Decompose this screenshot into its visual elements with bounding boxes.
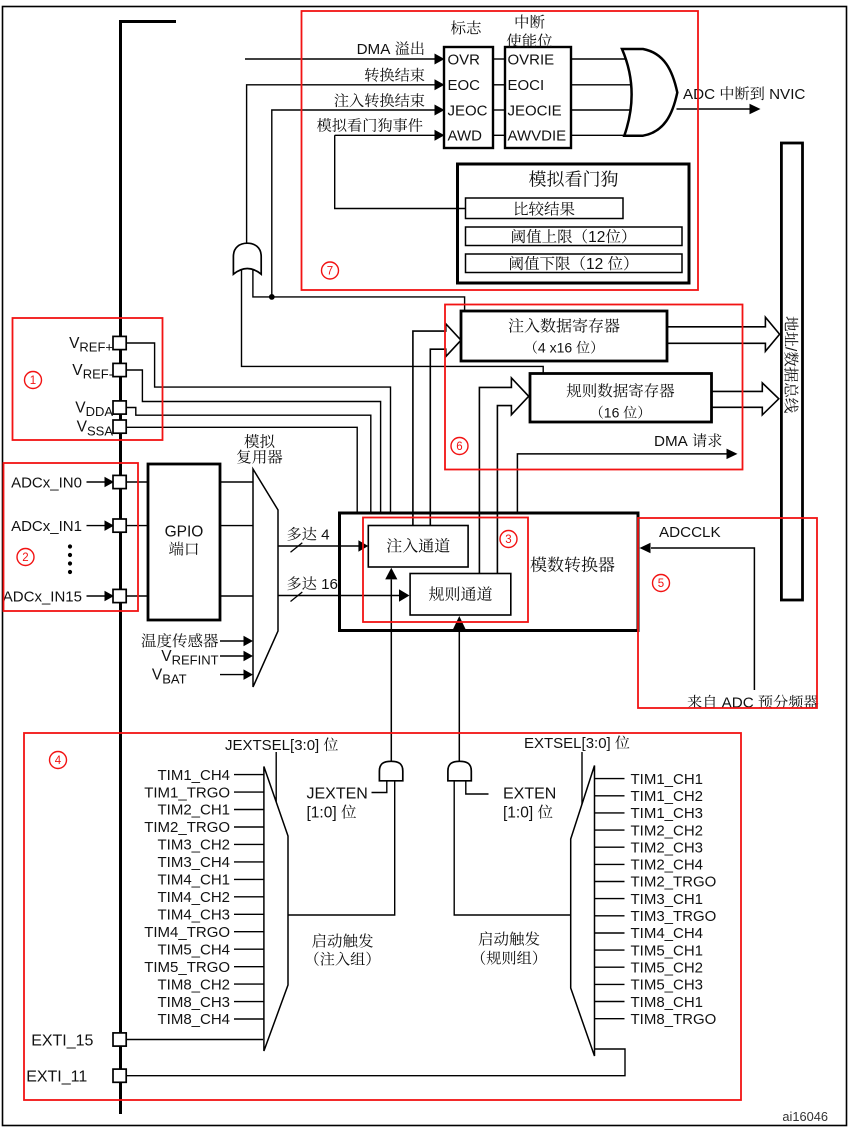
svg-text:TIM1_TRGO: TIM1_TRGO [144,784,230,801]
svg-text:5: 5 [658,578,664,590]
svg-text:DMA: DMA [357,41,392,58]
svg-text:TIM4_CH1: TIM4_CH1 [158,872,231,889]
svg-text:4: 4 [55,755,62,767]
svg-text:1: 1 [30,375,36,387]
svg-text:16: 16 [321,576,338,593]
svg-text:JEOCIE: JEOCIE [508,102,562,119]
svg-text:TIM4_TRGO: TIM4_TRGO [144,924,230,941]
svg-text:TIM8_CH2: TIM8_CH2 [158,976,231,993]
svg-text:TIM1_CH2: TIM1_CH2 [631,788,704,805]
svg-text:TIM4_CH4: TIM4_CH4 [631,925,704,942]
svg-text:12: 12 [586,256,603,273]
svg-text:ADC: ADC [722,695,754,712]
svg-text:TIM2_TRGO: TIM2_TRGO [631,874,717,891]
svg-text:TIM5_TRGO: TIM5_TRGO [144,959,230,976]
svg-text:ADC: ADC [683,86,715,103]
svg-text:TIM8_TRGO: TIM8_TRGO [631,1011,717,1028]
svg-text:TIM3_CH4: TIM3_CH4 [158,854,231,871]
svg-text:SSA: SSA [87,423,113,438]
svg-text:JEXTEN: JEXTEN [307,786,368,803]
svg-text:AWVDIE: AWVDIE [508,128,567,145]
svg-text:TIM2_TRGO: TIM2_TRGO [144,819,230,836]
svg-text:TIM4_CH3: TIM4_CH3 [158,907,231,924]
svg-text:2: 2 [22,552,28,564]
svg-text:TIM8_CH4: TIM8_CH4 [158,1011,231,1028]
svg-text:TIM1_CH3: TIM1_CH3 [631,805,704,822]
svg-text:TIM3_CH1: TIM3_CH1 [631,891,704,908]
svg-text:ADCx_IN0: ADCx_IN0 [11,474,82,491]
svg-text:16: 16 [604,405,620,421]
svg-text:REFINT: REFINT [172,653,219,668]
svg-text:JEXTSEL[3:0]: JEXTSEL[3:0] [225,737,319,754]
svg-text:OVRIE: OVRIE [508,51,555,68]
svg-text:V: V [161,648,172,665]
svg-text:TIM2_CH3: TIM2_CH3 [631,839,704,856]
svg-text:V: V [72,362,83,379]
svg-text:TIM1_CH4: TIM1_CH4 [158,767,231,784]
svg-text:TIM8_CH3: TIM8_CH3 [158,994,231,1011]
svg-text:EXTI_11: EXTI_11 [26,1069,87,1086]
svg-text:DMA: DMA [654,433,689,450]
svg-text:4 x16: 4 x16 [538,340,572,356]
svg-text:TIM2_CH1: TIM2_CH1 [158,802,231,819]
svg-text:EOC: EOC [448,77,481,94]
svg-text:GPIO: GPIO [165,524,204,541]
svg-text:TIM2_CH4: TIM2_CH4 [631,857,704,874]
svg-text:JEOC: JEOC [448,102,488,119]
svg-text:TIM1_CH1: TIM1_CH1 [631,771,704,788]
svg-text:V: V [75,400,86,417]
svg-text:REF-: REF- [83,367,113,382]
svg-text:NVIC: NVIC [769,86,805,103]
svg-text:REF+: REF+ [79,340,113,355]
svg-text:ai16046: ai16046 [782,1109,828,1124]
svg-text:7: 7 [327,266,333,278]
svg-text:4: 4 [321,527,329,544]
svg-text:TIM2_CH2: TIM2_CH2 [631,822,704,839]
svg-text:TIM5_CH4: TIM5_CH4 [158,941,231,958]
svg-text:TIM5_CH3: TIM5_CH3 [631,977,704,994]
svg-text:OVR: OVR [448,51,481,68]
svg-text:TIM3_TRGO: TIM3_TRGO [631,908,717,925]
svg-text:ADCx_IN1: ADCx_IN1 [11,518,82,535]
svg-text:TIM3_CH2: TIM3_CH2 [158,837,231,854]
svg-text:TIM4_CH2: TIM4_CH2 [158,889,231,906]
svg-text:EOCI: EOCI [508,77,545,94]
svg-text:[1:0]: [1:0] [503,805,533,822]
svg-text:12: 12 [588,229,605,246]
svg-text:ADCCLK: ADCCLK [659,524,721,541]
svg-text:TIM5_CH1: TIM5_CH1 [631,942,704,959]
svg-text:ADCx_IN15: ADCx_IN15 [3,588,82,605]
svg-text:EXTEN: EXTEN [503,786,556,803]
svg-text:3: 3 [505,534,511,546]
svg-text:/: / [782,347,799,352]
svg-text:BAT: BAT [162,671,186,686]
svg-text:[1:0]: [1:0] [307,805,337,822]
svg-text:DDA: DDA [86,404,114,419]
svg-text:EXTI_15: EXTI_15 [31,1032,93,1049]
svg-text:6: 6 [456,441,462,453]
svg-text:V: V [77,419,88,436]
svg-text:AWD: AWD [448,128,483,145]
svg-text:TIM5_CH2: TIM5_CH2 [631,960,704,977]
svg-text:EXTSEL[3:0]: EXTSEL[3:0] [524,735,611,752]
svg-text:TIM8_CH1: TIM8_CH1 [631,994,704,1011]
